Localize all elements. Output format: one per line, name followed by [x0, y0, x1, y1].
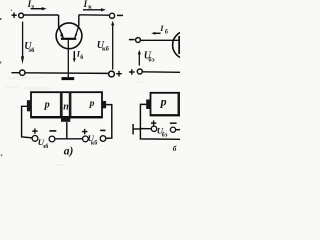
label p structure B — [160, 95, 167, 109]
plus sign source U_БЭ — [151, 120, 156, 125]
svg-text:n: n — [63, 102, 69, 113]
n region border right — [69, 92, 72, 117]
emitter contact structure A — [27, 100, 31, 111]
terminal circle U_КБ minus — [100, 136, 106, 142]
terminal circle U_ЭБ minus — [49, 136, 55, 142]
caption а) — [64, 146, 74, 158]
svg-text:I: I — [159, 24, 164, 33]
wire collector top horizontal — [79, 14, 109, 16]
label n region — [63, 102, 69, 113]
voltage arrow U_БЭ up — [138, 53, 140, 65]
plus sign circuit2 — [129, 69, 135, 75]
wire emitter top horizontal — [23, 14, 58, 16]
minus sign base circuit2 — [129, 39, 135, 41]
wire base bus structure A — [55, 138, 83, 140]
transistor Q2 circle cut at edge — [173, 31, 201, 59]
svg-text:p: p — [89, 98, 95, 109]
wire emitter vertical drop — [58, 15, 60, 27]
label I_Б circuit2 — [159, 24, 168, 35]
minus sign source U_ЭБ — [49, 130, 56, 132]
terminal circle base circuit2 — [136, 38, 141, 43]
svg-text:I: I — [83, 0, 88, 9]
label U_КБ — [97, 40, 110, 53]
label U_БЭ source — [157, 125, 168, 138]
emitter diagonal Q1 — [59, 27, 64, 38]
base contact structure A — [61, 117, 70, 122]
terminal circle U_ЭБ plus — [32, 136, 38, 142]
label U_КБ source — [88, 133, 98, 146]
svg-text:p: p — [44, 99, 50, 110]
plus sign bottom right — [116, 71, 122, 77]
ground bar base — [62, 77, 75, 80]
label I_К — [83, 0, 93, 10]
collector diagonal Q1 — [75, 26, 79, 39]
wire emitter bracket structure B — [140, 104, 180, 139]
svg-text:б: б — [80, 54, 83, 61]
current arrow I_Б — [73, 51, 75, 59]
svg-text:эб: эб — [43, 143, 49, 150]
terminal circle U_БЭ minus — [170, 127, 175, 132]
terminal circle emitter input — [19, 13, 24, 18]
label I_Б — [76, 49, 84, 61]
wire junction to plus circle — [140, 128, 151, 130]
svg-text:б: б — [165, 28, 168, 35]
terminal circle U_БЭ plus — [151, 126, 156, 131]
wire emitter bottom circuit2 — [142, 71, 180, 74]
wire collector vertical up — [78, 15, 80, 26]
minus sign source U_БЭ — [170, 122, 177, 124]
minus sign collector — [117, 14, 123, 16]
collector contact structure A — [102, 101, 106, 108]
wire base circuit2 — [141, 39, 179, 41]
box A bottom edge thick — [31, 116, 102, 118]
terminal circle bottom left — [20, 70, 25, 75]
emitter contact structure B — [146, 100, 151, 110]
wire common bottom — [25, 72, 108, 75]
speck artifacts — [0, 10, 12, 156]
terminal circle collector output — [109, 13, 114, 18]
n region border left — [60, 92, 63, 117]
label p right region — [89, 98, 95, 109]
label U_ЭБ source — [38, 137, 49, 150]
terminal circle bottom right plus — [109, 71, 115, 77]
semiconductor bar box structure B — [151, 93, 184, 116]
wire base down structure A — [66, 122, 68, 139]
base bar Q1 — [61, 38, 76, 40]
terminal circle U_КБ plus — [83, 136, 89, 142]
emitter arrowhead Q1 — [60, 33, 64, 38]
wire tick to junction — [133, 128, 140, 130]
current arrow I_К — [83, 9, 102, 11]
terminal circle emitter circuit2 — [137, 69, 142, 74]
plus sign source U_КБ — [82, 129, 87, 134]
wire common bottom left stub — [11, 72, 19, 74]
svg-text:кб: кб — [102, 46, 110, 53]
caption б fragment — [173, 145, 177, 153]
n region border structure B — [178, 93, 181, 115]
terminal tick structure B — [132, 124, 134, 134]
svg-text:эб: эб — [28, 47, 35, 54]
svg-text:а): а) — [64, 146, 74, 158]
label I_Э — [27, 0, 35, 10]
wire base down Q1 — [67, 40, 69, 78]
minus sign source U_КБ — [100, 129, 105, 131]
scan mottle patches (decorative) — [5, 9, 145, 166]
svg-text:p: p — [160, 95, 167, 109]
svg-text:кб: кб — [91, 139, 98, 146]
wire emitter bracket structure A — [22, 106, 32, 138]
plus sign source U_ЭБ — [32, 128, 37, 133]
wire from minus circle to edge — [176, 129, 180, 131]
voltage arrow U_ЭБ — [22, 22, 24, 57]
current arrow I_Б circuit2 — [153, 32, 160, 34]
transistor Q1 circle — [56, 23, 82, 49]
svg-text:б: б — [173, 145, 177, 153]
voltage arrow U_КБ — [112, 25, 114, 70]
current arrow I_Э — [31, 8, 43, 10]
label p left region — [44, 99, 50, 110]
label U_ЭБ — [24, 41, 35, 54]
wire collector bracket structure A — [106, 105, 112, 139]
box B bottom edge thick — [151, 114, 181, 116]
svg-text:бэ: бэ — [148, 56, 154, 63]
semiconductor bar box structure A — [31, 92, 102, 117]
label U_БЭ — [144, 51, 155, 64]
svg-text:бэ: бэ — [162, 131, 168, 138]
base bar Q2 vertical — [178, 36, 180, 54]
node + terminal emitter plus sign — [12, 13, 17, 18]
